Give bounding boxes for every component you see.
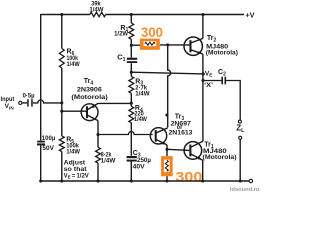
svg-text:300: 300 — [141, 24, 163, 40]
node C1/R3/bootstrap junction — [130, 71, 133, 74]
wire Tr3 emitter down — [166, 145, 168, 156]
node input/R6/R5 junction — [60, 101, 63, 104]
terminal right — [249, 179, 252, 182]
svg-text:1/4W: 1/4W — [135, 90, 149, 97]
svg-text:1/4W: 1/4W — [89, 7, 103, 14]
wire Tr4 collector down — [97, 121, 99, 148]
capacitor 100u 50V — [37, 141, 45, 143]
svg-text:so that: so that — [64, 167, 87, 173]
top rail to +V — [41, 14, 244, 16]
capacitor C3 250u 40V — [127, 156, 137, 158]
transistor Tr3 2N697 driver — [150, 128, 166, 144]
svg-text:100µ: 100µ — [42, 135, 56, 142]
svg-text:1/4W: 1/4W — [67, 61, 80, 68]
resistor R5 100k — [61, 111, 63, 136]
wire Tr1 collector up to X — [202, 81, 204, 142]
resistor R1 1/2W — [130, 15, 132, 24]
wire input with hop over bias line — [33, 100, 62, 103]
resistor R3 2.7k — [129, 76, 134, 93]
svg-text:(Motorola): (Motorola) — [206, 50, 238, 57]
svg-text:+V: +V — [245, 11, 254, 20]
wire Tr1 emitter to rail — [202, 160, 204, 181]
wire bootstrap C1 node to VE — [131, 72, 203, 74]
svg-text:1/4W: 1/4W — [134, 116, 147, 123]
wire Tr4 emitter to R3/R4 node — [98, 102, 131, 104]
wire Tr2 emitter down — [202, 54, 204, 80]
node R1/C1/300-wire — [130, 44, 133, 47]
svg-text:Adjust: Adjust — [64, 160, 86, 166]
resistor 39k (in top rail) — [90, 12, 106, 16]
capacitor C1 — [127, 58, 137, 60]
wire Tr2 collector to +V — [202, 15, 204, 39]
node R3/R4/Tr4-emitter — [130, 102, 133, 105]
transistor Tr4 2N3906 PNP input — [81, 104, 98, 121]
svg-text:VE = 1/2V: VE = 1/2V — [64, 173, 89, 179]
transistor Tr2 MJ480 upper output — [184, 37, 202, 55]
resistor R6 100k — [61, 15, 63, 49]
wire Tr3 base with hop over middle column — [98, 132, 153, 135]
load ZL terminals — [238, 120, 241, 123]
node VE — [202, 72, 205, 75]
node blob on bus — [165, 113, 168, 116]
input terminal — [19, 101, 22, 104]
svg-text:300: 300 — [175, 170, 202, 186]
resistor 300 highlight (top) — [140, 39, 160, 50]
ground rail — [41, 180, 250, 182]
wire 100u to rail — [40, 145, 42, 181]
node X — [201, 79, 204, 82]
wire Tr1 base — [167, 149, 189, 150]
svg-text:(Motorola): (Motorola) — [203, 154, 237, 161]
svg-text:50V: 50V — [42, 145, 54, 152]
svg-text:1/4W: 1/4W — [66, 148, 80, 155]
resistor R4 220 — [129, 106, 134, 123]
node Tr3 emitter / Tr1 base — [165, 148, 168, 151]
svg-text:ldsound.ru: ldsound.ru — [230, 187, 260, 193]
rail junction dots — [39, 179, 42, 182]
wire R1 node to Tr2 base through 300 — [131, 44, 190, 46]
wire Tr3 collector bus, hop over bootstrap — [168, 45, 171, 128]
svg-text:‘X’: ‘X’ — [204, 82, 213, 89]
svg-text:40V: 40V — [133, 163, 146, 170]
svg-text:2N3906: 2N3906 — [77, 86, 102, 93]
wire to Tr4 base — [62, 103, 87, 111]
svg-text:0·5µ: 0·5µ — [23, 92, 35, 99]
capacitor C2 — [203, 80, 221, 82]
svg-text:1/2W: 1/2W — [114, 30, 128, 37]
svg-text:(Motorola): (Motorola) — [71, 94, 107, 101]
resistor 300 highlight (bottom) — [161, 156, 173, 176]
svg-text:1/4W: 1/4W — [101, 158, 116, 165]
resistor 8.2k — [96, 147, 101, 163]
svg-text:2N1613: 2N1613 — [169, 129, 193, 136]
transistor Tr1 MJ480 lower output — [184, 142, 202, 160]
node Tr2-base/Tr3-collector bus — [166, 43, 169, 46]
wire left bias vertical — [40, 14, 42, 141]
